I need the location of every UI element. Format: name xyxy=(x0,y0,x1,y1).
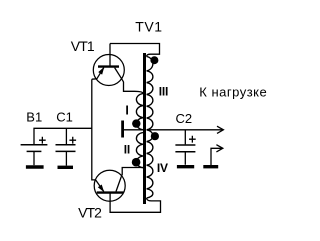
wire ground arrow output xyxy=(211,148,222,165)
battery B1 bottom lead xyxy=(33,152,35,165)
transistor VT1 xyxy=(93,55,124,86)
svg-text:II: II xyxy=(124,143,130,157)
wire VT2 collector to winding II bottom xyxy=(121,168,143,177)
svg-text:I: I xyxy=(125,104,128,118)
ground under B1 xyxy=(26,165,44,168)
plus sign C2 xyxy=(189,136,196,143)
svg-text:B1: B1 xyxy=(26,109,42,124)
svg-text:К нагрузке: К нагрузке xyxy=(199,84,267,99)
polarity dot winding I xyxy=(132,119,140,127)
wire VT1 base lead xyxy=(109,44,111,66)
svg-text:C2: C2 xyxy=(176,111,193,126)
svg-text:VT1: VT1 xyxy=(71,38,95,54)
plus sign B1 xyxy=(39,137,46,144)
polarity dot winding IV xyxy=(151,132,159,140)
arrowhead output bottom xyxy=(216,145,222,152)
winding II xyxy=(136,133,143,168)
winding IV xyxy=(147,130,153,198)
wire VT1 collector to winding I top xyxy=(122,80,143,94)
svg-text:VT2: VT2 xyxy=(78,205,102,221)
capacitor C1 bottom lead xyxy=(65,152,67,166)
polarity dot winding III xyxy=(150,56,158,64)
capacitor C2 leads xyxy=(184,130,186,165)
wire supply bus B1 C1 to rail xyxy=(34,128,92,144)
svg-text:IV: IV xyxy=(157,161,168,175)
capacitor C2 plates xyxy=(175,145,195,152)
wire winding I-II tap to chassis xyxy=(124,129,143,131)
transformer TV1 core xyxy=(143,53,146,204)
wire emitter rail xyxy=(92,79,96,180)
wire VT2 base to winding IV bottom xyxy=(110,193,160,212)
polarity dot winding II xyxy=(132,158,141,167)
winding I xyxy=(136,94,143,130)
ground under C1 xyxy=(58,166,74,169)
winding III xyxy=(147,57,153,130)
svg-text:TV1: TV1 xyxy=(135,19,162,35)
arrowhead output top xyxy=(217,126,223,133)
wire C1 top lead xyxy=(65,128,67,144)
capacitor C1 plates xyxy=(56,145,76,152)
ground under C2 xyxy=(177,165,194,168)
wire VT1 emitter stub xyxy=(92,78,97,80)
wire VT1 base to winding III top xyxy=(110,44,160,57)
transistor VT2 xyxy=(94,170,125,201)
wire winding III-IV tap to output arrow xyxy=(147,129,223,131)
battery B1 plates xyxy=(21,144,48,146)
svg-text:C1: C1 xyxy=(56,109,73,124)
ground under output arrow xyxy=(203,165,218,168)
chassis bar left tap xyxy=(121,121,124,138)
plus sign C1 xyxy=(69,137,76,144)
svg-text:III: III xyxy=(159,85,168,99)
